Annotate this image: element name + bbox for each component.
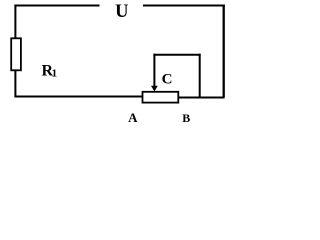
potentiometer (rheostat) body A-B bbox=[143, 92, 179, 103]
wire right vertical bbox=[223, 5, 225, 98]
wire left vertical lower bbox=[14, 70, 16, 96]
wiper arrow (terminal C) bbox=[153, 54, 155, 87]
svg-text:1: 1 bbox=[52, 68, 58, 80]
wire wiper top horizontal bbox=[153, 54, 200, 56]
wire top-left segment bbox=[14, 5, 99, 7]
wire bottom-left segment bbox=[14, 96, 143, 98]
svg-text:B: B bbox=[182, 111, 190, 125]
svg-text:C: C bbox=[162, 71, 173, 87]
wire top-right segment bbox=[143, 5, 225, 7]
svg-text:U: U bbox=[115, 2, 128, 22]
svg-text:A: A bbox=[128, 110, 138, 125]
wire wiper right vertical bbox=[199, 54, 201, 98]
wire bottom-right segment bbox=[178, 97, 224, 99]
resistor R1 bbox=[11, 38, 21, 70]
wire left vertical upper bbox=[14, 5, 16, 39]
